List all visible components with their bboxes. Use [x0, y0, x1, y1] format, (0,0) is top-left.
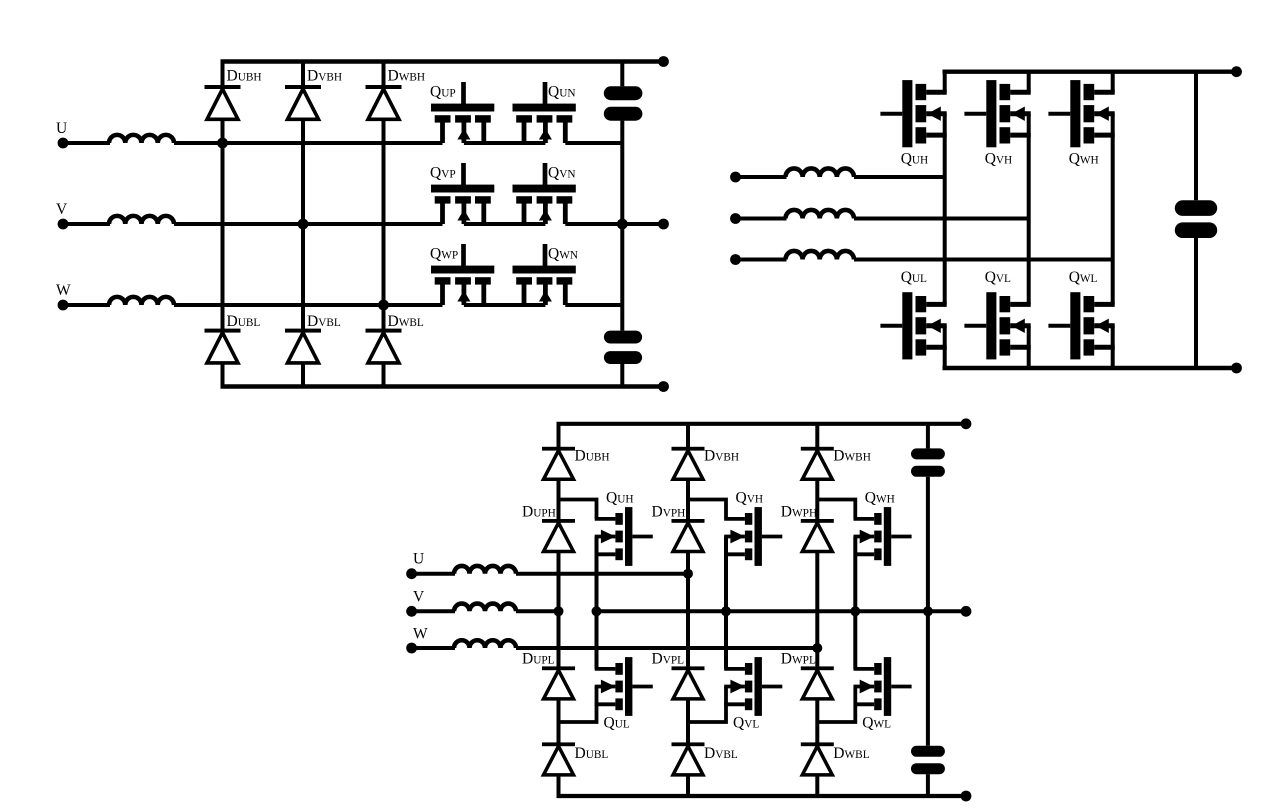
wire	[174, 303, 443, 307]
transistor QWH	[1048, 80, 1114, 147]
wire capacitor branch (circuit 3)	[926, 424, 930, 449]
svg-text:QVP: QVP	[430, 165, 456, 182]
svg-text:QWL: QWL	[862, 715, 891, 732]
node riser-neutral junction V (circuit 3)	[721, 606, 731, 616]
wire neutral rail (circuit 3)	[597, 609, 967, 613]
transistor QUL	[880, 292, 946, 359]
transistor QUP	[431, 82, 494, 143]
svg-text:QUH: QUH	[901, 151, 929, 168]
wire W phase line (circuit 3)	[516, 646, 817, 650]
inductor LW (circuit 2)	[786, 251, 855, 260]
svg-text:DWBL: DWBL	[388, 313, 424, 330]
transistor QVH	[964, 80, 1030, 147]
diode DUBL	[542, 742, 575, 775]
wire V leg column (circuit 3)	[686, 424, 690, 796]
inductor LV (circuit 2)	[786, 210, 855, 219]
wire	[412, 646, 455, 650]
diode DVBH	[672, 447, 705, 480]
wire	[854, 217, 1029, 221]
svg-text:DUBL: DUBL	[575, 745, 609, 762]
wire top bus (circuit 3)	[557, 422, 967, 426]
capacitor C-bottom (circuit 3)	[911, 746, 945, 774]
node U phase junction (circuit 3)	[683, 569, 693, 579]
svg-text:V: V	[56, 201, 68, 218]
wire	[854, 258, 1113, 262]
svg-text:QUL: QUL	[901, 269, 927, 286]
svg-text:DVBH: DVBH	[704, 448, 739, 465]
capacitor C-dc (circuit 2)	[1175, 200, 1217, 238]
wire	[854, 175, 945, 179]
node neutral terminal (circuit 3)	[961, 606, 972, 617]
node DC+ terminal (circuit 1)	[658, 56, 669, 67]
wire U phase line (circuit 3)	[516, 572, 688, 576]
wire node-A branch to QUH	[559, 500, 597, 519]
transistor QVL	[724, 657, 782, 716]
node V junction (circuit 1)	[298, 219, 309, 230]
transistor QUN	[513, 82, 576, 143]
transistor QWN	[513, 244, 576, 305]
svg-text:DVPH: DVPH	[652, 504, 686, 521]
svg-text:DUBH: DUBH	[575, 448, 610, 465]
diode DWPH	[801, 519, 834, 552]
node W input terminal (circuit 1)	[58, 300, 69, 311]
wire	[174, 141, 443, 145]
diode DWBH	[801, 447, 834, 480]
node W input terminal (circuit 2)	[730, 254, 741, 265]
capacitor C-top (circuit 3)	[911, 448, 945, 476]
inductor LV (circuit 3)	[454, 604, 516, 612]
wire to DC bus	[565, 303, 622, 307]
svg-text:DVBL: DVBL	[704, 745, 738, 762]
node V input terminal (circuit 1)	[58, 219, 69, 230]
wire	[736, 258, 787, 262]
svg-text:U: U	[413, 551, 424, 568]
diode DVPH	[672, 519, 705, 552]
transistor QUH	[880, 80, 946, 147]
svg-text:QUL: QUL	[604, 715, 630, 732]
diode DWBL	[801, 742, 834, 775]
diode DUBH	[542, 447, 575, 480]
wire phase leg U	[943, 114, 947, 305]
diode DWPL	[801, 666, 834, 699]
wire common source link	[464, 303, 546, 307]
svg-text:QUP: QUP	[430, 84, 456, 101]
diode DVBL	[672, 742, 705, 775]
diode DVBL	[285, 329, 321, 363]
wire bottom bus (circuit 1)	[221, 384, 664, 388]
node V input terminal (circuit 2)	[730, 213, 741, 224]
svg-text:QWH: QWH	[865, 490, 895, 507]
wire U leg column (circuit 3)	[557, 424, 561, 796]
svg-text:DUBH: DUBH	[227, 68, 262, 85]
wire source riser QVH	[724, 537, 728, 669]
transistor QVH	[724, 507, 782, 566]
wire source riser QWH	[853, 537, 857, 669]
transistor QWH	[854, 507, 912, 566]
node W phase junction (circuit 3)	[812, 643, 822, 653]
svg-text:QWP: QWP	[430, 246, 458, 263]
svg-text:DUPL: DUPL	[522, 651, 555, 668]
node riser-neutral junction U (circuit 3)	[592, 606, 602, 616]
diode DUBH	[205, 85, 241, 119]
node U input terminal (circuit 2)	[730, 172, 741, 183]
wire source riser QWL	[1111, 326, 1115, 368]
svg-text:W: W	[56, 282, 71, 299]
wire	[412, 609, 455, 613]
svg-text:QVH: QVH	[985, 151, 1013, 168]
wire source return QUL	[559, 687, 597, 723]
node W junction (circuit 1)	[378, 300, 389, 311]
wire V phase line (circuit 3)	[516, 609, 559, 613]
wire drain riser QWH	[1111, 72, 1115, 93]
diode DWBL	[366, 329, 402, 363]
svg-text:DWPL: DWPL	[781, 651, 816, 668]
wire W leg column (circuit 3)	[815, 424, 819, 796]
inductor LV (circuit 1)	[109, 216, 174, 224]
wire	[63, 303, 110, 307]
svg-text:QVL: QVL	[985, 269, 1011, 286]
wire common source link	[464, 222, 546, 226]
wire phase leg V	[1027, 114, 1031, 305]
wire	[736, 175, 787, 179]
node W input terminal (circuit 3)	[406, 643, 417, 654]
capacitor C-bottom (circuit 1)	[604, 331, 642, 364]
wire bottom bus (circuit 2)	[943, 366, 1237, 370]
node neutral-capacitor junction (circuit 3)	[923, 606, 933, 616]
svg-text:DWBH: DWBH	[388, 68, 426, 85]
node U junction (circuit 1)	[217, 138, 228, 149]
wire to DC bus	[565, 141, 622, 145]
wire	[63, 141, 110, 145]
transistor QWL	[1048, 292, 1114, 359]
wire source return QWL	[817, 687, 855, 723]
svg-text:W: W	[413, 626, 428, 643]
node DC- terminal (circuit 2)	[1231, 363, 1242, 374]
transistor QWL	[854, 657, 912, 716]
transistor QVP	[431, 163, 494, 224]
wire	[412, 572, 455, 576]
wire source riser QVL	[1027, 326, 1031, 368]
diode DVPL	[672, 666, 705, 699]
wire phase leg W	[1111, 114, 1115, 305]
wire	[63, 222, 110, 226]
wire W leg column (circuit 1)	[382, 62, 386, 387]
node mid junction (circuit 1)	[617, 219, 628, 230]
inductor LU (circuit 3)	[454, 566, 516, 574]
wire drain riser QUH	[943, 72, 947, 93]
transistor QWP	[431, 244, 494, 305]
wire source riser QUH	[595, 537, 599, 669]
wire source return QVL	[688, 687, 726, 723]
wire node-A branch to QVH	[688, 500, 726, 519]
svg-text:QWL: QWL	[1069, 269, 1098, 286]
wire bottom bus (circuit 3)	[557, 794, 967, 798]
svg-text:DUPH: DUPH	[522, 504, 556, 521]
wire common source link	[464, 141, 546, 145]
diode DUPL	[542, 666, 575, 699]
node DC+ terminal (circuit 2)	[1231, 66, 1242, 77]
svg-text:QUH: QUH	[606, 490, 634, 507]
wire top bus (circuit 2)	[943, 69, 1237, 73]
transistor QUL	[595, 657, 653, 716]
transistor QVN	[513, 163, 576, 224]
transistor QVL	[964, 292, 1030, 359]
svg-text:QWN: QWN	[548, 246, 578, 263]
svg-text:QVH: QVH	[736, 490, 764, 507]
svg-text:DVPL: DVPL	[652, 651, 685, 668]
wire mid tap (circuit 1)	[622, 222, 663, 226]
node DC- terminal (circuit 3)	[961, 791, 972, 802]
svg-text:DWPH: DWPH	[781, 504, 817, 521]
svg-text:DUBL: DUBL	[227, 313, 261, 330]
node U input terminal (circuit 1)	[58, 138, 69, 149]
capacitor C-top (circuit 1)	[604, 86, 643, 120]
svg-text:V: V	[413, 589, 425, 606]
svg-text:QUN: QUN	[548, 84, 576, 101]
svg-text:QWH: QWH	[1069, 151, 1099, 168]
node U input terminal (circuit 3)	[406, 568, 417, 579]
diode DUPH	[542, 519, 575, 552]
wire capacitor branch (circuit 2)	[1194, 72, 1198, 201]
inductor LW (circuit 1)	[109, 297, 174, 305]
node riser-neutral junction W (circuit 3)	[850, 606, 860, 616]
wire right DC bus (circuit 1)	[620, 62, 624, 87]
node V input terminal (circuit 3)	[406, 606, 417, 617]
wire drain riser QVH	[1027, 72, 1031, 93]
wire node-A branch to QWH	[817, 500, 855, 519]
wire top bus (circuit 1)	[221, 59, 664, 63]
node mid terminal (circuit 1)	[658, 219, 669, 230]
transistor QUH	[595, 507, 653, 566]
inductor LU (circuit 2)	[786, 168, 855, 177]
wire V leg column (circuit 1)	[301, 62, 305, 387]
svg-text:DVBH: DVBH	[307, 68, 342, 85]
node V phase junction (circuit 3)	[554, 606, 564, 616]
node DC+ terminal (circuit 3)	[961, 418, 972, 429]
wire	[174, 222, 443, 226]
inductor LW (circuit 3)	[454, 640, 516, 648]
svg-text:DWBL: DWBL	[833, 745, 869, 762]
node DC- terminal (circuit 1)	[658, 381, 669, 392]
svg-text:QVL: QVL	[733, 715, 759, 732]
inductor LU (circuit 1)	[109, 135, 174, 143]
svg-text:DWBH: DWBH	[833, 448, 871, 465]
svg-text:DVBL: DVBL	[307, 313, 341, 330]
wire U leg column (circuit 1)	[221, 62, 225, 387]
svg-text:QVN: QVN	[548, 165, 576, 182]
diode DVBH	[285, 85, 321, 119]
wire to DC bus	[565, 222, 622, 226]
wire	[736, 217, 787, 221]
wire source riser QUL	[943, 326, 947, 368]
diode DWBH	[366, 85, 402, 119]
svg-text:U: U	[56, 120, 67, 137]
diode DUBL	[205, 329, 241, 363]
